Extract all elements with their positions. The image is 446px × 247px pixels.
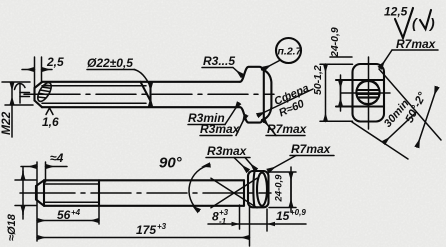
svg-text:+3: +3 [219, 208, 229, 217]
svg-text:R3...5: R3...5 [203, 54, 235, 68]
svg-text:-1: -1 [219, 217, 227, 226]
svg-text:1,6: 1,6 [42, 115, 59, 129]
svg-text:≈Ø18: ≈Ø18 [6, 213, 18, 241]
svg-text:R7max: R7max [267, 122, 308, 136]
svg-text:+0,9: +0,9 [290, 208, 306, 217]
svg-text:R3max: R3max [207, 144, 248, 158]
svg-text:): ) [428, 15, 435, 31]
svg-text:R7max: R7max [396, 37, 437, 51]
svg-text:12,5: 12,5 [384, 5, 408, 19]
svg-text:≈4: ≈4 [50, 151, 64, 165]
svg-text:R7max: R7max [291, 142, 332, 156]
svg-text:M22: M22 [0, 111, 13, 135]
svg-text:+3: +3 [157, 222, 167, 231]
svg-text:24-0,9: 24-0,9 [329, 27, 341, 58]
svg-text:56: 56 [57, 208, 71, 222]
svg-text:175: 175 [136, 223, 156, 237]
svg-text:R3max: R3max [200, 122, 241, 136]
svg-text:п.2.7: п.2.7 [278, 46, 303, 58]
svg-text:15: 15 [276, 209, 290, 223]
svg-text:Ø22±0,5: Ø22±0,5 [87, 56, 133, 70]
svg-text:8: 8 [212, 210, 219, 224]
svg-text:24-0,9: 24-0,9 [274, 174, 285, 203]
svg-text:50-1,2: 50-1,2 [312, 65, 324, 95]
svg-text:+4: +4 [71, 208, 81, 217]
svg-text:90°: 90° [159, 155, 183, 172]
svg-text:2,5: 2,5 [46, 55, 64, 69]
